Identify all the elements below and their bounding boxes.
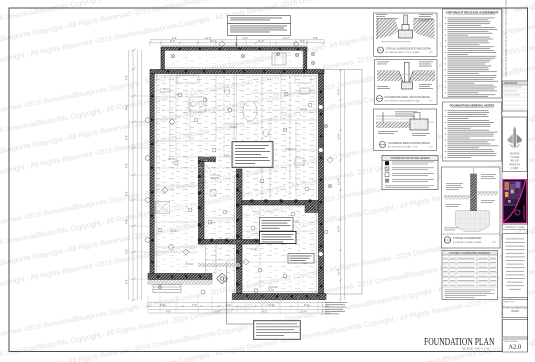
svg-text:W8x10: W8x10 (300, 109, 308, 111)
svg-text:COM: COM (511, 166, 518, 170)
interior wall B vertical (237, 169, 243, 294)
svg-text:FOUNDATION GENERAL NOTES: FOUNDATION GENERAL NOTES (450, 103, 495, 107)
mid note box 2 (260, 232, 297, 244)
svg-text:SLAB: SLAB (268, 289, 274, 292)
svg-text:9'-0": 9'-0" (243, 36, 248, 40)
interior wall C horizontal (242, 201, 319, 206)
detail 1 title (378, 47, 384, 53)
svg-text:12'-4": 12'-4" (337, 268, 341, 275)
copyright release agreement notes (443, 9, 502, 98)
svg-text:9'-2": 9'-2" (262, 310, 267, 314)
shower pan triangle (156, 202, 170, 214)
toilet 2 (263, 129, 268, 136)
svg-text:4" CONC: 4" CONC (160, 89, 170, 91)
svg-text:COPYRIGHT 2016 DOWNLOADBLUEPRI: COPYRIGHT 2016 DOWNLOADBLUEPRINTS.COM AL… (505, 0, 508, 77)
detail 3 box: perimeter footing detail (374, 109, 437, 151)
pier pads (151, 48, 322, 297)
svg-text:SLAB TYP: SLAB TYP (160, 91, 171, 94)
svg-text:STEP FTG: STEP FTG (285, 149, 296, 151)
svg-text:TYPICAL SLAB EDGE FOOTING DETA: TYPICAL SLAB EDGE FOOTING DETAIL (386, 46, 432, 50)
bottom right keynotes (322, 302, 347, 314)
interior dimension strings (157, 75, 318, 247)
svg-text:16'-8": 16'-8" (214, 310, 221, 314)
detail 1 box: slab edge footing detail (374, 13, 438, 56)
right dimension lines (341, 70, 345, 300)
thumbnail caption bar (503, 225, 528, 230)
concrete pad legend box (382, 156, 438, 190)
svg-text:P.T. 2x4: P.T. 2x4 (230, 124, 239, 126)
svg-text:5'-6": 5'-6" (304, 303, 309, 307)
hall lines (206, 244, 217, 274)
right dimension text (337, 88, 341, 275)
svg-text:CONCRETE PIER FOOTING DETAIL: CONCRETE PIER FOOTING DETAIL (388, 141, 430, 145)
svg-text:AT INTERIOR LOAD BEARING WALL: AT INTERIOR LOAD BEARING WALL (385, 99, 422, 102)
svg-text:AT GARAGE AND PORCH SLABS: AT GARAGE AND PORCH SLABS (386, 51, 421, 54)
porch fireplace (272, 53, 286, 65)
svg-text:12'-4": 12'-4" (337, 225, 341, 232)
svg-text:S.S.D.: S.S.D. (224, 155, 231, 157)
toilet 1 (224, 87, 229, 94)
patio outline (324, 69, 362, 294)
sheet title box (503, 300, 528, 318)
washer (210, 190, 216, 196)
rendering thumbnail (503, 180, 527, 224)
right wall (319, 74, 324, 300)
svg-text:SCALE: 1/4" = 1'-0": SCALE: 1/4" = 1'-0" (462, 347, 491, 351)
bottom dimension lines (148, 303, 330, 313)
detail 3 title (380, 142, 386, 148)
keynote circles (158, 92, 328, 294)
furnace (295, 158, 304, 165)
hall strip hatch (198, 263, 240, 267)
revisions box (503, 81, 528, 111)
porch top wall (161, 47, 307, 50)
svg-text:4'-0": 4'-0" (166, 310, 171, 314)
svg-text:REVISIONS: REVISIONS (504, 82, 517, 85)
svg-text:14'-2": 14'-2" (283, 36, 290, 40)
svg-text:EXTERIOR - COVER: EXTERIOR - COVER (505, 227, 525, 229)
svg-text:6'-8": 6'-8" (313, 36, 318, 40)
wall edge circles (145, 105, 323, 257)
keyed diamond (217, 273, 228, 284)
dimension ticks (132, 42, 342, 308)
detail 2 title (377, 96, 383, 102)
svg-text:FOR FOUNDATION: FOR FOUNDATION (503, 306, 527, 310)
svg-text:PORCH: PORCH (185, 264, 194, 266)
hot tub note box (288, 254, 314, 264)
interior wall D horizontal (199, 240, 263, 245)
svg-text:COPYRIGHT RELEASE AGREEMENT: COPYRIGHT RELEASE AGREEMENT (446, 11, 499, 15)
downloadblueprints logo box (503, 117, 528, 172)
dimension text (160, 36, 318, 314)
title column left edge (501, 8, 503, 352)
plumbing fixtures (177, 75, 311, 196)
spare box (503, 320, 528, 338)
svg-text:8'-0": 8'-0" (300, 39, 305, 43)
svg-text:9'-6": 9'-6" (125, 279, 129, 284)
detail 2 box: foundation wall section (375, 60, 438, 105)
beam dashed lines (157, 76, 316, 290)
typical wall section detail box (442, 167, 501, 248)
svg-text:12'-4": 12'-4" (337, 133, 341, 140)
svg-text:AT EXTERIOR WALL TYP.: AT EXTERIOR WALL TYP. (388, 145, 419, 148)
door arcs (190, 74, 262, 252)
svg-text:9'-6": 9'-6" (125, 219, 129, 224)
svg-text:SHEET TITLE: SHEET TITLE (504, 302, 516, 304)
wall inner face lines (155, 74, 319, 294)
fireplace bump (305, 201, 319, 213)
interior partitions (155, 74, 319, 263)
svg-text:FOUNDATION WALL DETAIL: FOUNDATION WALL DETAIL (453, 241, 483, 244)
svg-text:9'-8": 9'-8" (160, 303, 165, 307)
kitchen cabinet (295, 76, 311, 83)
svg-text:9'-6": 9'-6" (125, 135, 129, 140)
leader (236, 36, 238, 47)
sink (300, 88, 310, 94)
wall detail title (444, 237, 450, 243)
porch left wall (161, 50, 165, 69)
vanity (177, 75, 199, 83)
entry steps (153, 285, 181, 293)
main top wall (150, 70, 324, 74)
svg-text:9'-6": 9'-6" (125, 191, 129, 196)
svg-text:CONCRETE PILLOW PAD LEGEND: CONCRETE PILLOW PAD LEGEND (390, 157, 429, 160)
bathtub (243, 101, 257, 121)
porch inner edge (165, 50, 304, 68)
room labels (160, 89, 308, 292)
svg-text:FOUNDATION WALL SECTION DETAIL: FOUNDATION WALL SECTION DETAIL (385, 95, 431, 99)
slab note box (232, 142, 273, 168)
svg-text:9'-6": 9'-6" (125, 163, 129, 168)
porch stoop hatch (148, 280, 212, 285)
svg-text:PLATE: PLATE (230, 126, 238, 129)
foundation general notes (443, 102, 502, 161)
svg-text:12'-0": 12'-0" (268, 303, 275, 307)
left dimension text (125, 75, 129, 284)
svg-text:A2.0: A2.0 (508, 343, 522, 350)
bottom-left wall (148, 274, 212, 280)
disclaimer box (503, 234, 528, 298)
svg-text:TYPICAL FOUNDATION: TYPICAL FOUNDATION (453, 236, 482, 240)
anchor circles (158, 52, 332, 289)
svg-text:VERIFY: VERIFY (170, 231, 179, 233)
footing schedule table (442, 251, 498, 300)
svg-text:PLAN: PLAN (511, 309, 518, 313)
svg-text:DROP 4": DROP 4" (168, 159, 178, 161)
sheet number box (503, 339, 528, 352)
svg-text:GARAGE: GARAGE (268, 286, 278, 289)
logo glyph (508, 126, 522, 149)
svg-text:12'-4": 12'-4" (337, 178, 341, 185)
mid note box 1 (260, 218, 294, 232)
foundation plan walls (148, 47, 326, 300)
svg-text:12'-4": 12'-4" (337, 88, 341, 95)
svg-text:FOOTING / FOUNDATION SCHEDULE: FOOTING / FOUNDATION SCHEDULE (449, 252, 490, 255)
porch right wall (303, 50, 307, 69)
double sink (189, 97, 206, 112)
svg-text:10'-4": 10'-4" (210, 39, 217, 43)
interior annotation texture (157, 77, 315, 198)
svg-text:6'-2": 6'-2" (170, 39, 175, 43)
svg-text:9'-6": 9'-6" (125, 75, 129, 80)
bottom note box (227, 262, 301, 340)
interior wall stub (199, 157, 216, 162)
svg-text:9'-6": 9'-6" (125, 105, 129, 110)
svg-text:2x6 P.T.: 2x6 P.T. (250, 249, 258, 251)
interior wall A vertical (199, 157, 205, 244)
svg-text:7'-4": 7'-4" (192, 303, 197, 307)
left wall (150, 74, 154, 280)
svg-text:9'-6": 9'-6" (125, 249, 129, 254)
svg-text:10'-4": 10'-4" (300, 310, 307, 314)
bottom-right wall (233, 294, 327, 300)
svg-text:3 1/2" DIA: 3 1/2" DIA (210, 174, 221, 177)
extension lines (129, 40, 326, 313)
left dimension lines (129, 50, 142, 300)
svg-text:STL COL: STL COL (210, 178, 220, 180)
diamond symbols (162, 41, 333, 265)
top dimension lines (150, 40, 324, 46)
top note box (228, 16, 291, 47)
svg-text:11'-6": 11'-6" (258, 39, 264, 43)
